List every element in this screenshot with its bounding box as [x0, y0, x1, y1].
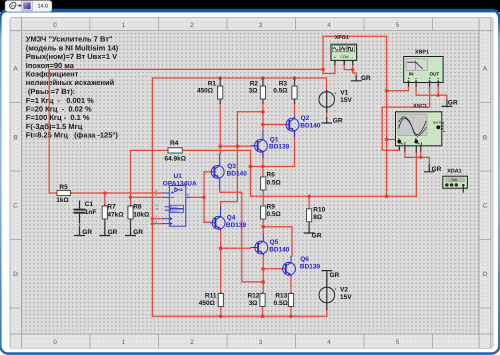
svg-text:R12: R12 [247, 292, 259, 299]
svg-text:0.5Ω: 0.5Ω [267, 179, 281, 186]
wire Q4 collector stub [220, 202, 222, 207]
svg-text:R6: R6 [267, 172, 276, 179]
ground R7 [99, 228, 110, 236]
svg-text:4: 4 [327, 22, 331, 29]
wire long vertical to output rail [386, 36, 388, 196]
svg-text:D: D [13, 271, 18, 278]
svg-text:V2: V2 [340, 287, 348, 294]
svg-text:0.5Ω: 0.5Ω [267, 211, 281, 218]
top blue accent line [2, 10, 498, 13]
wire emitter node horizontal [251, 166, 295, 168]
wire opamp V- supply branch [152, 223, 163, 225]
svg-text:C: C [483, 203, 488, 210]
svg-text:+: + [334, 91, 337, 96]
ruler letters right [483, 66, 488, 279]
svg-text:C: C [13, 203, 18, 210]
svg-text:R8: R8 [133, 204, 142, 211]
resistor R13 [274, 292, 294, 316]
resistor R11 [199, 292, 224, 316]
svg-text:Ext Trig: Ext Trig [433, 120, 444, 124]
source V1 [319, 89, 353, 113]
image icon [22, 1, 32, 11]
svg-text:нелинейных искажений: нелинейных искажений [26, 78, 115, 87]
svg-text:10kΩ: 10kΩ [133, 211, 149, 218]
svg-text:8Ω: 8Ω [313, 214, 322, 221]
svg-text:Коэффициент: Коэффициент [26, 70, 79, 79]
ground R8 [125, 228, 136, 236]
wire XFG1 plus pin link [323, 65, 335, 74]
hand tool icon [10, 2, 17, 8]
wire Q3 emitter link [220, 190, 242, 193]
svg-text:7: 7 [155, 215, 157, 219]
svg-text:GR: GR [330, 272, 340, 279]
svg-text:IN: IN [409, 72, 414, 77]
svg-text:Q2: Q2 [301, 115, 310, 122]
svg-text:Q4: Q4 [227, 215, 236, 222]
ruler numbers top [53, 22, 400, 29]
svg-text:R9: R9 [267, 203, 276, 210]
svg-text:64.9kΩ: 64.9kΩ [165, 156, 186, 163]
svg-text:4: 4 [155, 220, 157, 224]
wire left bases vertical [221, 112, 238, 202]
svg-text:COM: COM [341, 55, 349, 59]
svg-text:XFG1: XFG1 [335, 35, 349, 41]
wire Q3 Q4 base vertical [203, 172, 205, 222]
svg-text:XDA1: XDA1 [447, 168, 461, 174]
wire Q1 collector node jumper [237, 111, 263, 113]
node scope tap [385, 138, 389, 142]
wire Q1 base [220, 145, 250, 147]
node opamp output [202, 196, 206, 200]
node Q5 emitter branch [261, 280, 265, 284]
node Q5 base [219, 247, 223, 251]
wire Q4 base [204, 221, 210, 223]
node R10 top [307, 195, 311, 199]
wire R4 line left [131, 149, 169, 151]
arrow icon [17, 4, 21, 7]
wire R9 bottom node [262, 219, 264, 227]
wire positive rail horizontal [153, 77, 327, 79]
wire C1 red stub [79, 223, 81, 227]
node R3 top [293, 76, 297, 80]
svg-text:3: 3 [155, 189, 157, 193]
wire Q2 bottom drop [294, 132, 296, 167]
svg-text:R3: R3 [279, 80, 288, 87]
wire V2 bottom connection [326, 310, 328, 317]
wire R5 left lead link [50, 192, 58, 194]
wire Q5 base [221, 247, 251, 249]
resistor R1 [197, 78, 223, 104]
svg-text:C1: C1 [85, 201, 94, 208]
transistor Q2 [286, 117, 299, 138]
svg-text:+: + [334, 287, 337, 292]
svg-text:14.0: 14.0 [38, 4, 49, 10]
svg-text:BD140: BD140 [269, 247, 290, 254]
svg-text:4: 4 [327, 339, 331, 346]
svg-text:5: 5 [396, 339, 400, 346]
instrument XDA1 distortion analyzer [443, 168, 468, 192]
svg-text:A: A [398, 137, 400, 141]
svg-text:Q5: Q5 [270, 239, 279, 246]
ground C1 [74, 227, 85, 236]
svg-text:R4: R4 [170, 140, 179, 147]
resistor R5 [56, 184, 70, 204]
svg-text:Ft=8.25 Мгц (фаза -125°): Ft=8.25 Мгц (фаза -125°) [26, 131, 119, 140]
wire XFG1 plus riser [322, 36, 324, 73]
wire output rail [251, 195, 417, 197]
node R8 top [129, 196, 133, 200]
svg-text:Iпокоя=90 ма: Iпокоя=90 ма [26, 61, 75, 70]
resistor R7 [102, 204, 123, 228]
wire inverting input [131, 196, 164, 198]
wire XBP1 in minus ground run [416, 86, 447, 100]
node Q1 collector upper [261, 110, 265, 114]
capacitor C1 [74, 201, 97, 224]
node R11 bottom [219, 315, 223, 319]
resistor R12 [247, 292, 265, 316]
wire input vertical [48, 69, 50, 193]
node feedback emitter [249, 165, 253, 169]
wire XSC1 stub from long vertical [387, 139, 396, 141]
wire feedback vertical [250, 150, 252, 196]
svg-text:0: 0 [53, 22, 57, 29]
svg-text:GR: GR [432, 166, 442, 173]
svg-text:6: 6 [187, 193, 189, 197]
wire Q5 emitter chain [262, 256, 264, 293]
instrument XFG1 function generator [331, 35, 357, 65]
svg-text:F=100 Кгц - 0.1 %: F=100 Кгц - 0.1 % [26, 113, 90, 122]
wire Q6 emitter to R13 [290, 277, 292, 293]
svg-text:15V: 15V [340, 294, 352, 301]
svg-text:1kΩ: 1kΩ [56, 197, 68, 204]
wire top jumper horizontal [323, 35, 387, 37]
svg-text:2: 2 [190, 339, 194, 346]
instrument XSC1 oscilloscope [396, 103, 445, 152]
svg-text:0.5Ω: 0.5Ω [273, 88, 287, 95]
node Q1 base branch [236, 144, 240, 148]
wire XSC1 B minus ground [421, 151, 430, 164]
node Q1 base R1 [218, 144, 222, 148]
svg-text:GR: GR [133, 229, 143, 236]
node R7 top [103, 191, 107, 195]
wire positive rail to opamp V+ [152, 78, 163, 316]
svg-text:(Рвых=7 Вт):: (Рвых=7 Вт): [26, 87, 75, 96]
wire R4 line right [182, 149, 250, 151]
svg-text:BD140: BD140 [227, 170, 248, 177]
transistor Q6 [283, 256, 296, 277]
svg-text:8: 8 [156, 207, 158, 211]
wire R2 bottom to Q1 collector [262, 102, 264, 131]
wire Q3 base [204, 171, 212, 173]
svg-text:BD139: BD139 [300, 264, 321, 271]
resistor R9 [261, 203, 281, 219]
svg-text:0.5Ω: 0.5Ω [274, 300, 288, 307]
wire R3 to Q2 top [294, 102, 296, 118]
svg-text:THD: THD [451, 178, 458, 182]
svg-text:V1: V1 [340, 89, 348, 96]
wire R6 R9 link [262, 190, 264, 205]
svg-text:Q6: Q6 [300, 256, 309, 263]
node XBP1 out minus [437, 94, 440, 97]
svg-text:УМЗЧ "Усилитель 7 Вт": УМЗЧ "Усилитель 7 Вт" [26, 35, 113, 44]
source V2 [319, 281, 352, 310]
title tab [5, 1, 52, 12]
node output tap [385, 195, 389, 199]
svg-text:3: 3 [259, 339, 263, 346]
svg-text:1nF: 1nF [85, 209, 97, 216]
svg-text:3Ω: 3Ω [249, 300, 258, 307]
svg-text:GR: GR [448, 100, 458, 107]
svg-text:1: 1 [122, 22, 126, 29]
node XFG1 minus com [351, 68, 354, 71]
wire XSC1 B plus drop [415, 152, 417, 196]
wire Q5 collector stub [262, 227, 264, 234]
svg-text:U1: U1 [174, 173, 183, 180]
black title strip [0, 0, 500, 12]
node input tap [385, 89, 389, 93]
svg-text:BAL1: BAL1 [171, 206, 178, 209]
svg-text:15V: 15V [340, 97, 352, 104]
resistor R3 [273, 78, 297, 104]
svg-text:47kΩ: 47kΩ [107, 211, 123, 218]
wire V1 bottom red stub [326, 112, 328, 117]
wire XBP1 out minus stub [437, 86, 439, 95]
svg-text:BD139: BD139 [226, 222, 247, 229]
wire V1 top connection [326, 78, 328, 90]
node R9 bottom [261, 225, 265, 229]
node opamp V plus branch [151, 217, 154, 220]
svg-text:GR: GR [82, 229, 92, 236]
svg-text:BD139: BD139 [269, 144, 290, 151]
wire XSC1 A minus [405, 151, 421, 157]
svg-text:B: B [13, 135, 17, 142]
svg-text:R10: R10 [313, 206, 325, 213]
svg-text:F(-3дб)=1.5 Мгц: F(-3дб)=1.5 Мгц [26, 122, 83, 131]
ruler numbers bottom [53, 339, 400, 346]
svg-text:(модель в NI Multisim 14): (модель в NI Multisim 14) [26, 43, 119, 52]
svg-text:R13: R13 [275, 292, 287, 299]
wire R1 bottom to Q3 collector node [219, 102, 221, 153]
svg-text:GR: GR [361, 75, 371, 82]
svg-text:B: B [415, 137, 417, 141]
svg-text:Q3: Q3 [227, 163, 236, 170]
svg-text:3: 3 [259, 22, 263, 29]
svg-text:Рвых(ном)=7 Вт Uвх=1 V: Рвых(ном)=7 Вт Uвх=1 V [26, 52, 117, 61]
wire Q6 collector run [263, 227, 292, 256]
node opamp V minus branch [151, 222, 154, 225]
svg-text:GR: GR [108, 229, 118, 236]
svg-text:XSC1: XSC1 [413, 103, 427, 109]
svg-text:F=20 Кгц - 0.02 %: F=20 Кгц - 0.02 % [26, 105, 92, 114]
node R2 top [261, 76, 265, 80]
resistor R4 [165, 140, 186, 163]
svg-text:5: 5 [396, 22, 400, 29]
svg-text:3Ω: 3Ω [249, 88, 258, 95]
wire bottom rail horizontal [152, 315, 326, 317]
node R6 top [261, 165, 265, 169]
instrument XBP1 bode plotter [404, 50, 443, 87]
wire input line to opamp [70, 192, 163, 194]
svg-text:2: 2 [190, 22, 194, 29]
resistor R6 [261, 172, 281, 190]
ground XBP1 [442, 100, 453, 107]
node rail corner [321, 68, 325, 72]
svg-text:1: 1 [122, 339, 126, 346]
op-amp U1 [163, 186, 190, 227]
node R12 bottom [261, 315, 265, 319]
wire XBP1 out plus to scope A [382, 86, 429, 150]
svg-text:R1: R1 [208, 80, 217, 87]
schematic comment text block [26, 35, 119, 140]
svg-text:450Ω: 450Ω [199, 300, 215, 307]
wire Q2 base [263, 124, 286, 126]
resistor R8 [128, 204, 149, 228]
svg-text:XBP1: XBP1 [415, 50, 429, 56]
ground V1 [321, 117, 332, 123]
resistor R2 [249, 78, 266, 104]
svg-text:R7: R7 [107, 204, 116, 211]
wire right bases vertical [242, 192, 263, 282]
node Q6 base [261, 267, 265, 271]
wire opamp output [190, 196, 204, 198]
svg-text:GR: GR [312, 232, 322, 239]
svg-text:BD140: BD140 [300, 123, 321, 130]
wire Q1 emitter to R6 [262, 152, 264, 178]
svg-text:GR: GR [333, 117, 343, 124]
node R1 top [218, 76, 222, 80]
ground XSC1 [424, 164, 435, 172]
node Q2 base tap [261, 123, 265, 127]
svg-text:Q1: Q1 [270, 136, 279, 143]
wire R4 to R8 vertical [130, 150, 132, 204]
wire Q6 base [263, 268, 282, 270]
wire XFG1 com link [344, 65, 356, 76]
wire R7 top drop [104, 193, 106, 205]
svg-text:OUT: OUT [430, 72, 440, 77]
svg-text:2: 2 [155, 193, 157, 197]
ground V2 inverted [322, 271, 333, 281]
svg-text:R2: R2 [250, 80, 259, 87]
transistor Q3 [211, 153, 224, 189]
svg-text:R11: R11 [205, 292, 217, 299]
ground XFG1 [351, 76, 362, 81]
svg-text:0: 0 [53, 339, 57, 346]
node XSC1 B minus [419, 156, 422, 159]
svg-text:R5: R5 [59, 184, 68, 191]
svg-text:F=1 Кгц - 0.001 %: F=1 Кгц - 0.001 % [26, 96, 94, 105]
transistor Q4 [210, 207, 225, 231]
svg-text:OPA134UA: OPA134UA [163, 180, 197, 187]
transistor Q1 [251, 131, 268, 158]
svg-text:D: D [483, 271, 488, 278]
resistor R10 [307, 196, 326, 227]
ground R10 [304, 227, 315, 233]
wire Q4 emitter to R11 [220, 231, 222, 293]
wire negative rail top horizontal [49, 68, 323, 70]
transistor Q5 [251, 234, 268, 256]
svg-text:B: B [483, 135, 487, 142]
node R13 bottom [289, 315, 293, 319]
wire V2 top red stub [326, 278, 328, 282]
wire XBP1 in plus [387, 86, 409, 91]
svg-text:450Ω: 450Ω [197, 88, 213, 95]
ruler letters left [13, 66, 18, 279]
svg-text:BAL2: BAL2 [171, 210, 178, 213]
